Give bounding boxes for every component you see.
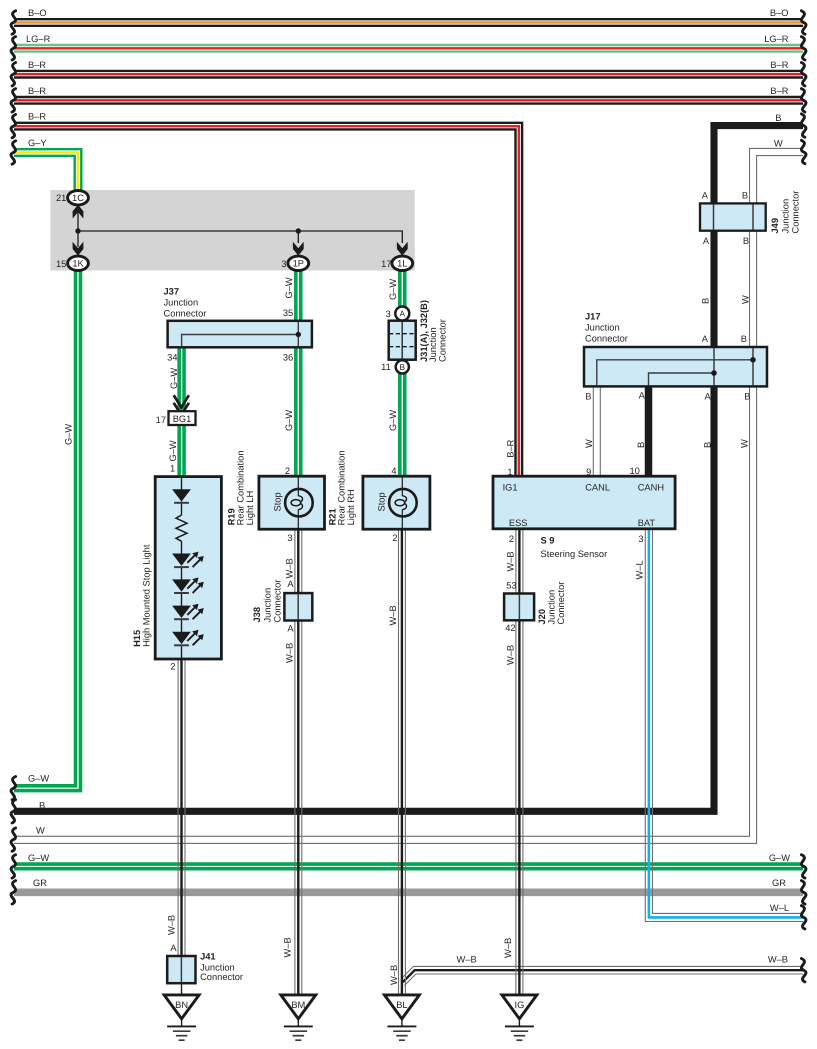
- svg-text:J17: J17: [585, 312, 601, 322]
- H15 diode D1: [172, 489, 191, 501]
- J17 internal junction dot on B: [711, 370, 717, 376]
- component S9 Steering Sensor box: [493, 476, 675, 529]
- svg-text:B–R: B–R: [770, 86, 788, 96]
- svg-text:BAT: BAT: [638, 518, 656, 528]
- H15 LED 1: [172, 552, 204, 568]
- svg-text:W–B: W–B: [457, 955, 477, 965]
- wire LG-R (top bus 2): [14, 45, 803, 52]
- svg-text:W–B: W–B: [503, 938, 513, 958]
- svg-text:1L: 1L: [397, 259, 407, 269]
- wire W-B (R21 pin 2 down to BL ground): [399, 529, 406, 996]
- svg-text:G–W: G–W: [284, 410, 294, 431]
- svg-text:B–R: B–R: [28, 60, 46, 70]
- svg-text:B–R: B–R: [28, 112, 46, 122]
- J20 internal wire: [518, 595, 520, 620]
- svg-text:Steering Sensor: Steering Sensor: [541, 549, 608, 559]
- H15 LED 3: [172, 604, 204, 620]
- svg-text:B: B: [400, 362, 406, 372]
- svg-text:BN: BN: [175, 1000, 188, 1010]
- wire G-W (left column from 1K down, elbows left to edge): [14, 268, 80, 791]
- svg-text:LG–R: LG–R: [764, 34, 789, 44]
- svg-text:B–O: B–O: [770, 8, 789, 18]
- svg-text:G–W: G–W: [388, 279, 398, 300]
- svg-text:G–W: G–W: [769, 853, 790, 863]
- svg-text:W–L: W–L: [770, 903, 789, 913]
- svg-text:W–B: W–B: [166, 915, 176, 935]
- svg-text:Junction: Junction: [585, 323, 620, 333]
- svg-text:1P: 1P: [293, 259, 304, 269]
- R21 stop bulb: [389, 489, 417, 517]
- wire W-L (from S9 BAT down, elbows right to edge): [645, 529, 803, 922]
- svg-text:53: 53: [506, 580, 516, 590]
- connector oval 1L: [392, 256, 413, 270]
- svg-text:IG: IG: [514, 1000, 524, 1010]
- svg-text:B: B: [701, 298, 711, 304]
- wire W (J17 pin B to S9 CANL pin 9): [593, 386, 600, 476]
- svg-text:W–B: W–B: [282, 937, 292, 957]
- svg-text:A: A: [287, 579, 294, 589]
- wire W (from right edge down through J49/J17 to bottom W bus): [14, 148, 803, 843]
- svg-text:J38: J38: [252, 607, 262, 623]
- svg-text:BM: BM: [291, 1000, 305, 1010]
- wire break symbols right edge: [801, 11, 806, 982]
- wire B (thick, from right edge down through J49/J17 to bottom B bus): [14, 126, 803, 812]
- svg-text:S 9: S 9: [541, 536, 555, 546]
- svg-text:1C: 1C: [72, 193, 84, 203]
- J17 internal junction dot on W: [750, 357, 756, 363]
- svg-text:LG–R: LG–R: [26, 34, 51, 44]
- J17 internal wire (W pass-through): [752, 348, 754, 386]
- svg-text:A: A: [703, 236, 710, 246]
- junction connector J31(A),J32(B) box: [389, 321, 416, 360]
- svg-text:1: 1: [170, 464, 175, 474]
- svg-text:2: 2: [170, 662, 175, 672]
- svg-text:Connector: Connector: [438, 319, 448, 362]
- svg-text:3: 3: [287, 533, 292, 543]
- R21 internal wire: [401, 477, 403, 496]
- J37 internal junction dot: [296, 332, 301, 337]
- svg-text:GR: GR: [33, 878, 47, 888]
- wire (J41 to BN ground): [181, 982, 183, 996]
- svg-text:B–R: B–R: [28, 86, 46, 96]
- svg-text:J49: J49: [770, 218, 780, 234]
- svg-text:B: B: [744, 392, 750, 402]
- wire G-Y (elbows down to connector 1C): [14, 149, 81, 191]
- svg-text:36: 36: [283, 353, 293, 363]
- svg-text:42: 42: [505, 623, 515, 633]
- svg-text:A: A: [704, 392, 711, 402]
- svg-text:B: B: [743, 236, 749, 246]
- svg-text:2: 2: [285, 466, 290, 476]
- svg-text:Connector: Connector: [791, 191, 801, 234]
- svg-text:W: W: [774, 138, 783, 148]
- wire W-B (S9 ESS pin 2 down through J20 to IG ground): [516, 529, 523, 996]
- svg-text:B–R: B–R: [770, 60, 788, 70]
- svg-text:1: 1: [507, 467, 512, 477]
- wire W-B (R19 pin 3 down through J38 to BM ground): [295, 529, 302, 996]
- svg-text:W–B: W–B: [505, 645, 515, 665]
- connector oval 1P: [288, 256, 309, 270]
- wire G-W (J37 pin 34 down to arrow/BG1): [179, 347, 184, 411]
- component R21 Rear Combination Light RH box: [363, 476, 430, 529]
- junction connector J41 box: [167, 956, 195, 983]
- wire G-W (1P column: gray band to J37): [296, 268, 301, 322]
- svg-text:ESS: ESS: [509, 518, 528, 528]
- junction connector J37 box: [168, 321, 312, 348]
- svg-text:35: 35: [283, 308, 293, 318]
- J49 internal wire (B): [713, 205, 715, 231]
- svg-text:W–B: W–B: [389, 965, 399, 985]
- svg-text:2: 2: [509, 534, 514, 544]
- svg-text:Connector: Connector: [556, 582, 566, 625]
- H15 resistor: [176, 515, 187, 541]
- svg-text:Junction: Junction: [780, 199, 790, 234]
- wire W-B (H15 pin 2 down to J41): [178, 659, 185, 957]
- svg-text:A: A: [170, 943, 177, 953]
- svg-text:B: B: [703, 442, 713, 448]
- svg-text:2: 2: [392, 533, 397, 543]
- svg-text:B: B: [741, 334, 747, 344]
- svg-text:W–B: W–B: [284, 643, 294, 663]
- ground BL: [384, 995, 419, 1040]
- junction connector J31(A),J32(B) circle A: [395, 307, 409, 321]
- svg-text:Connector: Connector: [585, 334, 628, 344]
- junction dot (branch to 1P): [296, 228, 301, 233]
- component R19 Rear Combination Light LH box: [259, 476, 325, 529]
- arrow down (into 1K): [73, 242, 84, 256]
- svg-text:21: 21: [56, 193, 66, 203]
- svg-text:G–W: G–W: [284, 277, 294, 298]
- svg-text:Stop: Stop: [377, 492, 387, 511]
- svg-text:BG1: BG1: [173, 414, 192, 424]
- svg-text:W–B: W–B: [388, 605, 398, 625]
- svg-text:9: 9: [586, 467, 591, 477]
- svg-text:G–W: G–W: [28, 774, 49, 784]
- svg-text:B: B: [775, 113, 781, 123]
- svg-text:Connector: Connector: [200, 972, 243, 982]
- svg-text:34: 34: [167, 353, 177, 363]
- wire G-W (BG1 to H15 pin 1): [179, 425, 184, 476]
- wire G-W (1L column: gray band to connector A): [400, 268, 405, 308]
- wire G-W (bottom full-width bus): [14, 864, 803, 869]
- connector oval 1C: [68, 191, 89, 205]
- svg-text:Stop: Stop: [273, 492, 283, 511]
- J49 internal wire (W): [752, 205, 754, 231]
- svg-text:10: 10: [629, 466, 639, 476]
- arrow down (into 1L): [397, 242, 408, 256]
- wire G-W (1L column: connector B to R21 pin 4): [400, 372, 405, 477]
- wire B (J17 pin A to S9 CANH pin 10): [645, 386, 653, 476]
- wire B-R (top bus 3): [14, 71, 803, 78]
- H15 internal wire: [181, 477, 183, 490]
- wire B-R (top bus 4): [14, 97, 803, 104]
- ground IG: [502, 995, 537, 1040]
- J17 internal link CANH to B: [649, 373, 715, 386]
- ground BM: [281, 995, 316, 1040]
- svg-text:W: W: [740, 439, 750, 448]
- svg-text:W–B: W–B: [768, 955, 788, 965]
- svg-text:Light RH: Light RH: [346, 489, 356, 525]
- svg-text:Connector: Connector: [164, 309, 207, 319]
- svg-text:B–R: B–R: [505, 439, 515, 457]
- wire break symbols left edge: [11, 11, 16, 904]
- wire GR (bottom full-width bus): [14, 888, 803, 896]
- svg-text:W: W: [741, 295, 751, 304]
- H15 LED 2: [172, 578, 204, 594]
- svg-text:11: 11: [381, 362, 391, 372]
- svg-text:3: 3: [281, 259, 286, 269]
- svg-text:W–B: W–B: [505, 551, 515, 571]
- svg-text:B: B: [585, 392, 591, 402]
- svg-text:BL: BL: [396, 1000, 407, 1010]
- svg-text:A: A: [639, 391, 646, 401]
- H15 LED 4: [172, 630, 204, 646]
- R19 internal wire: [297, 477, 299, 496]
- svg-text:IG1: IG1: [503, 483, 518, 493]
- svg-text:W: W: [36, 826, 45, 836]
- svg-text:Light LH: Light LH: [245, 491, 255, 526]
- junction connector J20 box: [504, 594, 534, 621]
- component H15 High Mounted Stop Light box: [155, 477, 221, 659]
- svg-text:A: A: [287, 624, 294, 634]
- connector BG1 box: [169, 411, 196, 425]
- svg-text:A: A: [702, 191, 709, 201]
- gray band (junction block area): [50, 190, 415, 271]
- svg-text:W–L: W–L: [635, 560, 645, 579]
- svg-text:B: B: [742, 191, 748, 201]
- svg-text:B: B: [39, 801, 45, 811]
- svg-text:G–W: G–W: [388, 410, 398, 431]
- junction connector J38 box: [284, 593, 312, 620]
- J17 internal link CANL to W: [597, 360, 753, 386]
- J37 internal link to pin 34: [182, 335, 299, 347]
- svg-text:G–W: G–W: [168, 440, 178, 461]
- svg-text:J37: J37: [164, 287, 180, 297]
- J38 internal wire: [297, 594, 299, 620]
- svg-text:1K: 1K: [72, 259, 84, 269]
- svg-text:G–W: G–W: [64, 424, 74, 445]
- svg-text:CANL: CANL: [585, 483, 610, 493]
- double chevron arrow (to BG1): [174, 395, 189, 415]
- svg-text:17: 17: [381, 259, 391, 269]
- svg-text:17: 17: [156, 415, 166, 425]
- svg-text:GR: GR: [772, 878, 786, 888]
- junction connector J49 box: [700, 203, 766, 230]
- J41 internal wire: [180, 957, 182, 983]
- svg-text:B: B: [636, 442, 646, 448]
- svg-text:Junction: Junction: [164, 298, 199, 308]
- svg-text:3: 3: [638, 534, 643, 544]
- J37 internal wire 35-36: [297, 322, 299, 346]
- junction connector J17 box: [584, 347, 767, 386]
- svg-text:4: 4: [391, 466, 396, 476]
- svg-text:J41: J41: [200, 952, 216, 962]
- arrow down (into 1P): [293, 242, 304, 256]
- svg-text:15: 15: [56, 259, 66, 269]
- wire B-R (top bus 5, elbows down to S9 IG1): [14, 123, 522, 476]
- junction dot (above 1K): [75, 228, 80, 233]
- connector oval 1K: [68, 256, 89, 270]
- svg-text:G–W: G–W: [169, 368, 179, 389]
- svg-text:Junction: Junction: [262, 588, 272, 623]
- junction connector J31(A),J32(B) circle B: [396, 360, 409, 373]
- ground BN: [164, 995, 199, 1040]
- svg-text:G–W: G–W: [28, 853, 49, 863]
- junction block internal link line (1C to 1K/1P/1L): [78, 231, 402, 243]
- arrow up (into 1C): [73, 205, 84, 219]
- svg-text:3: 3: [386, 309, 391, 319]
- svg-text:B–O: B–O: [28, 8, 47, 18]
- wire B-O (top bus 1): [14, 19, 803, 26]
- wire W-B (bottom right bus merging into BL column): [402, 966, 803, 985]
- svg-text:High Mounted Stop Light: High Mounted Stop Light: [142, 544, 152, 647]
- svg-text:W–B: W–B: [284, 558, 294, 578]
- svg-text:W: W: [584, 439, 594, 448]
- svg-text:A: A: [702, 334, 709, 344]
- svg-text:Connector: Connector: [273, 580, 283, 623]
- svg-text:G–Y: G–Y: [28, 138, 47, 148]
- svg-text:CANH: CANH: [638, 483, 664, 493]
- J17 internal wire (B thick pass-through): [713, 348, 715, 386]
- wire G-W (1P column: J37 to R19 pin 2): [296, 347, 301, 477]
- R19 stop bulb: [285, 489, 313, 517]
- svg-text:A: A: [400, 309, 406, 319]
